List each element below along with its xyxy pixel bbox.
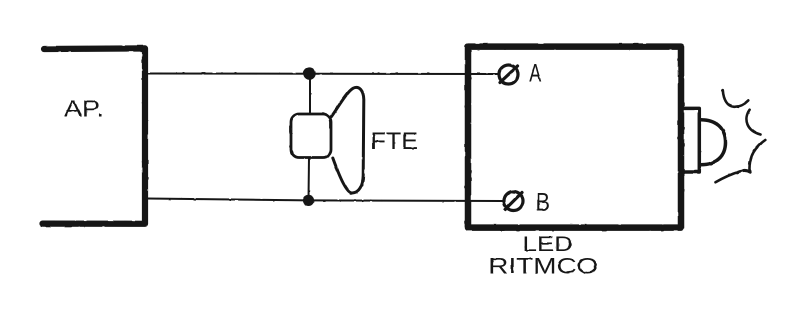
svg-text:B: B	[536, 189, 551, 217]
amplifier box AP (open left side)	[43, 48, 146, 223]
junction dot top	[303, 67, 315, 79]
terminal A slash	[500, 66, 518, 83]
light ray top	[723, 90, 749, 107]
terminal B circle	[504, 192, 523, 211]
terminal B slash	[505, 193, 522, 210]
wire speaker vertical top	[309, 74, 311, 114]
speaker FTE driver (rounded square)	[291, 114, 331, 158]
LED lamp dome	[701, 120, 726, 165]
wire top (AP to terminal A)	[147, 73, 498, 76]
LED box (RITMCO unit)	[468, 47, 681, 228]
junction dot bottom	[303, 195, 314, 206]
light ray upper right	[746, 110, 760, 135]
wire bottom (AP to terminal B)	[147, 199, 503, 202]
svg-text:RITMCO: RITMCO	[488, 254, 598, 279]
light ray lower right	[749, 140, 765, 172]
wire speaker vertical bottom	[308, 158, 311, 201]
svg-text:A: A	[529, 60, 541, 88]
speaker FTE cone	[332, 87, 364, 193]
light ray bottom	[716, 171, 751, 183]
svg-text:FTE: FTE	[371, 128, 419, 155]
terminal A circle	[499, 65, 518, 84]
svg-text:AP.: AP.	[64, 95, 104, 121]
LED lamp bracket	[683, 108, 699, 172]
